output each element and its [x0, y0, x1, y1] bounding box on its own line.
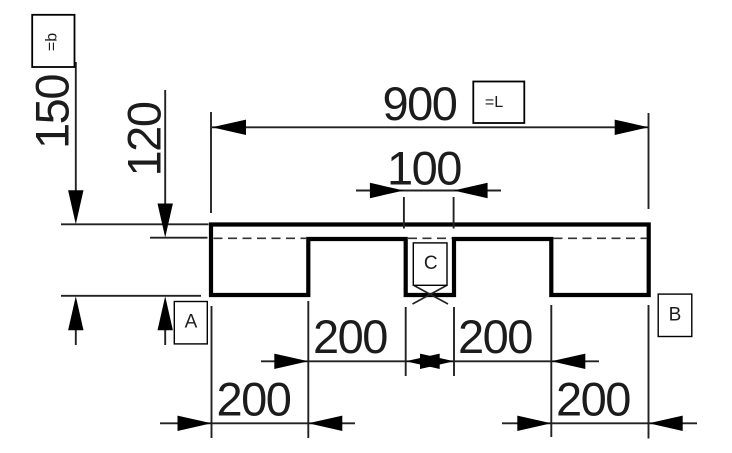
extension line x=648.7 bottom (for 200 row2 right) — [648, 305, 650, 439]
svg-text:A: A — [185, 311, 198, 332]
extension line x=454 bottom (for 200 row1) — [453, 307, 455, 376]
arrow 200 row2 at x551 — [517, 416, 551, 431]
svg-text:=b: =b — [44, 33, 61, 51]
extension line left edge top (for 900) — [210, 112, 212, 213]
arrow 200 row2 at x648 — [649, 416, 683, 431]
svg-text:B: B — [669, 305, 682, 326]
extension line beam bottom left (for 150/120) — [61, 295, 201, 297]
arrow 900 right — [615, 120, 649, 135]
arrow 900 left — [212, 120, 246, 135]
arrow 120 top — [158, 204, 173, 238]
extension line x=551 bottom (for 200 rows) — [550, 305, 552, 437]
label box C — [413, 243, 447, 285]
beam profile outline — [211, 225, 649, 296]
arrow 100 right — [454, 183, 488, 198]
node marker X under C — [413, 286, 449, 305]
dimension line 200 row2 left — [160, 422, 355, 424]
label box B — [658, 294, 692, 336]
svg-text:=L: =L — [485, 94, 503, 111]
arrow 200 row1 at x405 left-pointing — [406, 354, 440, 369]
extension line right edge top (for 900) — [648, 113, 650, 209]
arrow 200 row1 at x551 — [551, 354, 585, 369]
svg-text:C: C — [424, 253, 438, 274]
dimension line 150 vertical — [75, 62, 77, 191]
svg-text:900: 900 — [383, 77, 457, 130]
arrowheads — [68, 120, 683, 431]
extension line 100 left — [403, 197, 405, 229]
arrow 120 bottom — [158, 296, 173, 330]
dimension line 100 — [356, 190, 501, 192]
label box A — [174, 302, 207, 344]
extension line x=211 bottom (for 200 row2 left) — [211, 306, 213, 438]
extension line beam top left (for 150) — [61, 223, 209, 225]
extension line x=405.7 bottom (for 200 row1) — [405, 307, 407, 376]
extension line x=308 bottom (for 200 rows) — [307, 301, 309, 438]
svg-text:150: 150 — [26, 75, 79, 149]
svg-text:200: 200 — [556, 373, 630, 426]
dimension line 900 — [212, 126, 648, 128]
hidden deck line (dashed) — [214, 237, 647, 239]
dimension line 200 row2 right — [502, 422, 697, 424]
svg-text:120: 120 — [118, 102, 171, 176]
dimension line 200 row1 — [261, 360, 599, 362]
label box =L — [473, 82, 524, 124]
arrow 150 top — [68, 190, 83, 224]
extension line deck level left (for 120) — [150, 237, 208, 239]
svg-text:200: 200 — [217, 373, 291, 426]
arrow 100 left — [370, 183, 404, 198]
arrow 200 row2 at x211 — [178, 416, 212, 431]
label box =b — [32, 15, 74, 67]
arrow 200 row1 at x454 right-pointing — [420, 354, 454, 369]
dimension line 120 vertical — [164, 90, 166, 204]
thin extension and dimension lines — [61, 62, 697, 439]
arrow 150 bottom — [68, 296, 83, 330]
extension line 100 right — [453, 197, 455, 229]
arrow 200 row1 at x308 — [274, 354, 308, 369]
arrow 200 row2 at x308 — [308, 416, 342, 431]
svg-text:200: 200 — [458, 310, 532, 363]
svg-text:200: 200 — [313, 310, 387, 363]
svg-text:100: 100 — [387, 142, 461, 195]
